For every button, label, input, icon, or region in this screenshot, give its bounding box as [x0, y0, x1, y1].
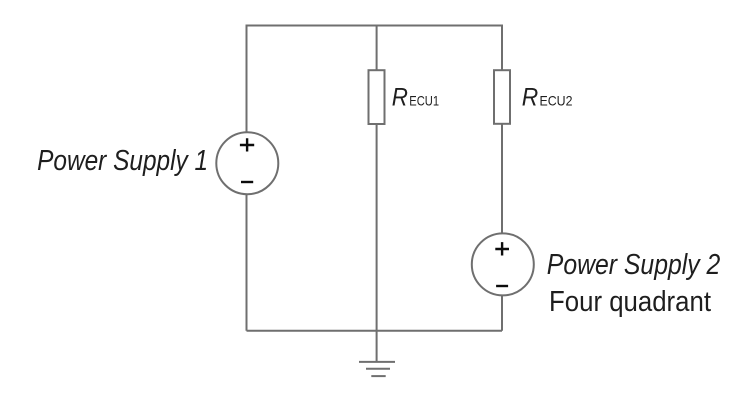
svg-text:R: R [522, 83, 539, 111]
svg-text:ECU2: ECU2 [540, 92, 573, 108]
svg-text:ECU1: ECU1 [409, 93, 439, 109]
svg-text:Four quadrant: Four quadrant [549, 286, 711, 318]
svg-text:R: R [392, 84, 408, 112]
svg-text:Power Supply 1: Power Supply 1 [37, 145, 208, 177]
svg-text:Power Supply 2: Power Supply 2 [547, 249, 721, 281]
